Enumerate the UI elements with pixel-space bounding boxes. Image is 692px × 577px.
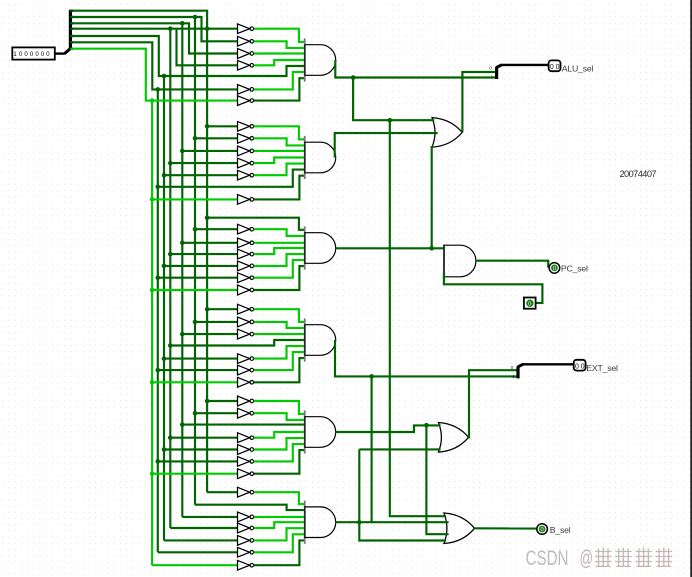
svg-text:20074407: 20074407 [620,169,657,179]
svg-text:CSDN: CSDN [526,546,569,570]
svg-text:0: 0 [550,64,554,71]
svg-text:EXT_sel: EXT_sel [586,363,618,373]
svg-text:0: 0 [581,363,585,370]
svg-text:0: 0 [528,301,531,307]
svg-text:0: 0 [556,64,560,71]
svg-text:B_sel: B_sel [550,525,571,535]
svg-text:ALU_sel: ALU_sel [562,64,594,74]
svg-text:PC_sel: PC_sel [561,263,588,273]
svg-text:0: 0 [541,527,544,533]
svg-text:@: @ [580,546,594,570]
svg-text:0: 0 [575,363,579,370]
svg-text:0: 0 [553,266,556,272]
svg-text:1000000: 1000000 [13,52,51,58]
